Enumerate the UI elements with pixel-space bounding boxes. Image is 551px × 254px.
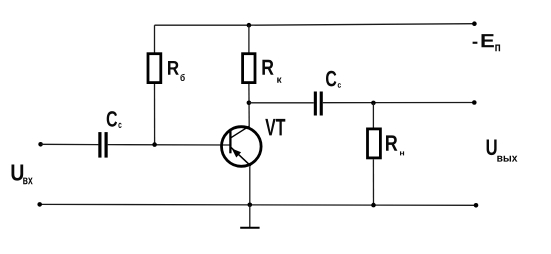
terminal output bottom: [474, 203, 479, 208]
label Cc input: [107, 111, 117, 127]
wire top rail: [155, 24, 475, 26]
label Cc input subscript: [118, 123, 121, 128]
label Rб: [168, 61, 179, 75]
wire ground stub: [249, 205, 251, 228]
resistor Rн: [368, 129, 381, 158]
label VT: [265, 119, 285, 135]
label Rк: [262, 60, 273, 75]
resistor Rк: [243, 54, 255, 83]
wire collector node to Cc output: [249, 102, 314, 104]
terminal output top: [472, 100, 477, 105]
wire Cc to base: [108, 144, 230, 146]
node base junction: [152, 142, 157, 147]
node top rail junction: [247, 23, 252, 28]
node Rн top junction: [371, 101, 376, 106]
capacitor Cc output: [314, 92, 323, 116]
label Uвх subscript: [23, 178, 32, 185]
wire bottom rail: [40, 203, 476, 206]
capacitor Cc input: [98, 132, 107, 158]
label Uвх: [11, 164, 23, 180]
wire Rн bottom lead: [372, 159, 374, 205]
wire Cc output to output terminal: [323, 102, 475, 104]
terminal input bottom: [37, 202, 42, 207]
wire emitter down: [249, 166, 251, 205]
label Cc output: [326, 71, 336, 87]
node Rн bottom junction: [371, 203, 376, 208]
wire Rб to base node: [154, 84, 156, 145]
wire top rail to Rб: [154, 25, 156, 53]
wire Rк to collector: [248, 84, 250, 127]
transistor VT: [222, 126, 262, 166]
wire Rн top lead: [372, 103, 374, 128]
label Rб subscript: [180, 74, 184, 81]
label Rк subscript: [277, 77, 281, 82]
label Rн subscript: [400, 151, 404, 155]
label -Eп minus: [473, 42, 478, 44]
ground: [240, 227, 259, 229]
resistor Rб: [148, 54, 161, 83]
terminal -Ep: [472, 21, 477, 26]
wire top rail to Rк: [248, 25, 250, 53]
node emitter ground junction: [248, 203, 253, 208]
label -Eп subscript: [495, 45, 500, 52]
terminal input top: [38, 142, 43, 147]
wire input terminal to Cc: [41, 143, 99, 145]
label Uвых subscript: [497, 156, 517, 162]
label Cc output subscript: [338, 83, 341, 87]
label -Eп E: [481, 34, 493, 47]
node collector junction: [247, 101, 252, 106]
label Rн: [386, 135, 397, 150]
label Uвых: [487, 139, 497, 155]
